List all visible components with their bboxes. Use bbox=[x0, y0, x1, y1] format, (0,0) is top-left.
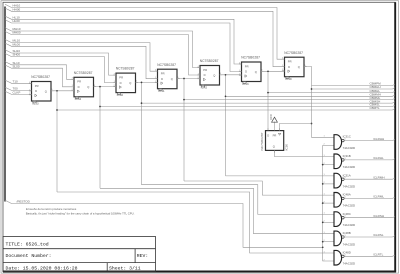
svg-text:/RESTOD: /RESTOD bbox=[17, 199, 31, 203]
svg-text:IC33: IC33 bbox=[32, 101, 39, 105]
wire output /CLRSL to right border bbox=[344, 236, 395, 237]
D flip-flop IC40 (NC7SB0287) bbox=[113, 73, 138, 95]
junction Q7 at CBMHH line bbox=[311, 88, 313, 90]
inner frame thick bottom edge bbox=[3, 271, 396, 273]
junction IC30 output at Q7 vertical bbox=[311, 123, 313, 125]
D flip-flop IC42 (NC7SB0287) bbox=[197, 66, 222, 88]
junction Q5 branch bbox=[225, 74, 227, 76]
svg-text:PR: PR bbox=[203, 68, 207, 72]
svg-text:TITLE: 6526_tod: TITLE: 6526_tod bbox=[6, 241, 49, 247]
junction /RESTOD at IC31A bbox=[322, 183, 324, 185]
svg-text:74AC02D: 74AC02D bbox=[343, 165, 356, 169]
svg-text:Date: 15.05.2020 08:16:28: Date: 15.05.2020 08:16:28 bbox=[6, 265, 78, 271]
wire MH00 from bus to D of IC42 bbox=[5, 31, 200, 75]
D flip-flop IC41 (NC7SB0287) bbox=[155, 69, 180, 91]
title block frame bbox=[3, 237, 156, 272]
svg-text:74AC02D: 74AC02D bbox=[343, 146, 356, 150]
wire Q5 vertical drop bbox=[225, 75, 227, 176]
svg-text:/CLRML: /CLRML bbox=[373, 195, 384, 199]
svg-text:Q: Q bbox=[255, 70, 257, 74]
svg-text:CBMMH: CBMMH bbox=[370, 93, 381, 97]
svg-text:VCC: VCC bbox=[269, 114, 273, 120]
wire HL00 from bus to D of IC43 bbox=[5, 20, 242, 72]
junction Q1 branch bbox=[56, 90, 58, 92]
wire MH10 from bus to PR of IC42 bbox=[5, 28, 200, 68]
NAND gate IC48D (74AC02D) bbox=[324, 250, 347, 265]
wire T10 from bus to PR of IC33 bbox=[5, 80, 32, 83]
svg-text:D: D bbox=[35, 89, 37, 93]
wire Q3 vertical drop bbox=[141, 82, 143, 184]
wire /RESTOD branch to IC31B lower input bbox=[323, 164, 334, 166]
wire output /CLRHL to right border bbox=[344, 159, 395, 160]
svg-text:ML00: ML00 bbox=[13, 42, 21, 46]
D flip-flop IC34 (NC7SB0287) bbox=[71, 77, 96, 99]
svg-text:NC7SB0287: NC7SB0287 bbox=[31, 75, 50, 79]
svg-text:IC30: IC30 bbox=[285, 144, 289, 151]
wire Q of IC43 to CLK of IC49 bbox=[261, 70, 285, 72]
svg-text:SL00: SL00 bbox=[13, 64, 20, 68]
wire /RESTOD branch to IC48B lower input bbox=[323, 241, 334, 243]
wire HH10 from bus to PR of IC49 bbox=[5, 4, 285, 59]
svg-text:Q: Q bbox=[273, 144, 275, 148]
wire ML10 from bus to PR of IC41 bbox=[5, 39, 158, 71]
inner frame thick right edge bbox=[394, 2, 396, 271]
svg-text:CBMPM: CBMPM bbox=[370, 82, 382, 86]
wire Q of IC34 to CLK of IC40 bbox=[94, 86, 117, 88]
svg-text:IC48C: IC48C bbox=[343, 212, 351, 216]
junction Q6 at CBMHL line bbox=[267, 92, 269, 94]
svg-text:D: D bbox=[78, 85, 80, 89]
NAND gate IC48B (74AC02D) bbox=[324, 231, 347, 246]
wire output /CLRSH to right border bbox=[344, 217, 395, 218]
svg-text:IC31C: IC31C bbox=[343, 135, 351, 139]
NAND gate IC48A (74AC02D) bbox=[324, 193, 347, 208]
junction Q3 at CBMSH line bbox=[141, 102, 143, 104]
svg-text:Q: Q bbox=[171, 77, 173, 81]
svg-text:IC42: IC42 bbox=[201, 85, 208, 89]
svg-text:74AC02D: 74AC02D bbox=[343, 185, 356, 189]
svg-text:IC31B: IC31B bbox=[343, 154, 351, 158]
wire HH00 from bus to D of IC49 bbox=[5, 8, 285, 67]
svg-text:IC40: IC40 bbox=[117, 93, 124, 97]
D flip-flop IC43 (NC7SB0287) bbox=[239, 62, 264, 84]
wire Q of IC42 to CLK of IC43 bbox=[220, 74, 242, 76]
svg-text:/CLRMH: /CLRMH bbox=[373, 175, 385, 179]
wire Q4 vertical drop bbox=[183, 79, 185, 182]
wire /RESTOD branch to IC31A lower input bbox=[323, 183, 334, 185]
svg-text:IC34: IC34 bbox=[75, 97, 82, 101]
wire output net CBMPM to right border bbox=[312, 84, 396, 85]
svg-text:/CLRSL: /CLRSL bbox=[373, 233, 384, 237]
wire output /CLRTL to right border bbox=[344, 255, 395, 256]
wire IC30 output to NAND IC31B upper input bbox=[275, 150, 335, 156]
junction Q2 branch bbox=[99, 86, 101, 88]
wire Q3 net to NAND IC48C upper input bbox=[142, 185, 335, 215]
wire T00 from bus to D of IC33 bbox=[5, 87, 32, 90]
wire NAND clear rail vertical bbox=[323, 145, 334, 261]
svg-text:NC7SB0287: NC7SB0287 bbox=[116, 67, 135, 71]
wire output net CBMHH to right border bbox=[312, 88, 396, 89]
svg-text:IC48D: IC48D bbox=[343, 250, 351, 254]
wire /RESTOD branch to IC48C lower input bbox=[323, 221, 334, 223]
svg-text:/CLRHH: /CLRHH bbox=[373, 137, 384, 141]
D flip-flop IC33 (NC7SB0287) bbox=[29, 82, 54, 104]
svg-text:IC48B: IC48B bbox=[343, 231, 351, 235]
wire Q1 net to NAND IC48D upper input bbox=[57, 192, 334, 253]
wire SL10 from bus to PR of IC34 bbox=[5, 62, 74, 80]
wire Q of IC33 to CLK of IC34 bbox=[51, 90, 74, 92]
wire SL00 from bus to D of IC34 bbox=[5, 65, 74, 87]
VCC power symbol for IC30 bbox=[272, 117, 278, 128]
svg-text:IC31A: IC31A bbox=[343, 173, 351, 177]
svg-text:74AC02D: 74AC02D bbox=[343, 204, 356, 208]
svg-text:Sheet: 3/11: Sheet: 3/11 bbox=[109, 265, 141, 271]
svg-text:PR: PR bbox=[35, 84, 39, 88]
svg-text:PR: PR bbox=[77, 80, 81, 84]
junction /RESTOD at IC31B bbox=[322, 164, 324, 166]
svg-text:74AC02D: 74AC02D bbox=[343, 262, 356, 266]
svg-text:CBMSH: CBMSH bbox=[370, 99, 381, 103]
svg-text:PR: PR bbox=[273, 133, 277, 137]
wire HL10 from bus to PR of IC43 bbox=[5, 16, 242, 64]
svg-text:HL00: HL00 bbox=[13, 19, 21, 23]
D flip-flop IC30 (NC7SB0287, rotated) bbox=[266, 128, 284, 153]
svg-text:PR: PR bbox=[161, 72, 165, 76]
svg-text:D: D bbox=[204, 73, 206, 77]
wire Q2 net to NAND IC48D upper input bbox=[100, 188, 334, 233]
junction Q1 at CBMTL line bbox=[56, 109, 58, 111]
wire /RESTOD from bus to NAND clear rail bbox=[5, 200, 323, 247]
svg-text:IC49: IC49 bbox=[285, 77, 292, 81]
svg-text:D: D bbox=[245, 70, 247, 74]
svg-text:D: D bbox=[120, 81, 122, 85]
left input bus bbox=[4, 7, 6, 202]
svg-text:IC43: IC43 bbox=[242, 82, 249, 86]
wire output net CBMSH to right border bbox=[142, 102, 396, 103]
svg-text:Q: Q bbox=[45, 89, 47, 93]
junction /RESTOD at IC48C bbox=[322, 222, 324, 224]
svg-text:CLKP: CLKP bbox=[13, 91, 21, 95]
wire CLKP from bus to CLK of IC33 bbox=[5, 91, 32, 94]
svg-text:CBMHL: CBMHL bbox=[370, 89, 381, 93]
wire Q5 net to NAND IC31A upper input bbox=[226, 175, 335, 177]
svg-text:CBMHH: CBMHH bbox=[370, 85, 381, 89]
NAND gate IC48C (74AC02D) bbox=[324, 212, 347, 227]
junction /RESTOD at IC48B bbox=[322, 241, 324, 243]
svg-text:74AC02D: 74AC02D bbox=[343, 242, 356, 246]
svg-text:NC7SB0287: NC7SB0287 bbox=[157, 63, 176, 67]
svg-text:Basically, it's just "nickel t: Basically, it's just "nickel trading" fo… bbox=[26, 211, 135, 215]
wire output /CLRHH to right border bbox=[344, 139, 395, 140]
NAND gate IC31C (74AC02D) bbox=[324, 135, 347, 150]
wire SH10 from bus to PR of IC40 bbox=[5, 50, 116, 75]
wire output net CBMHL to right border bbox=[268, 91, 395, 92]
wire /RESTOD branch to IC48A lower input bbox=[323, 202, 334, 204]
svg-text:PR: PR bbox=[245, 64, 249, 68]
svg-text:Q: Q bbox=[87, 85, 89, 89]
svg-text:MH00: MH00 bbox=[13, 31, 21, 35]
svg-text:/CLRTL: /CLRTL bbox=[373, 253, 384, 257]
svg-text:D: D bbox=[288, 65, 290, 69]
svg-text:REV:: REV: bbox=[137, 253, 149, 259]
NAND gate IC31A (74AC02D) bbox=[324, 173, 347, 188]
wire Q1 vertical drop bbox=[56, 91, 58, 192]
wire output /CLRML to right border bbox=[344, 197, 395, 198]
wire Q of IC40 to CLK of IC41 bbox=[136, 81, 158, 83]
svg-text:Document Number:: Document Number: bbox=[6, 253, 52, 259]
svg-text:/CLRSH: /CLRSH bbox=[373, 214, 384, 218]
wire output /CLRMH to right border bbox=[344, 178, 395, 179]
wire output net CBMTL to right border bbox=[57, 109, 395, 110]
svg-text:IC48A: IC48A bbox=[343, 193, 351, 197]
junction Q4 at CBMML line bbox=[183, 99, 185, 101]
junction Q5 at CBMMH line bbox=[225, 95, 227, 97]
junction Q3 branch bbox=[141, 82, 143, 84]
junction Q6 branch bbox=[267, 70, 269, 72]
wire Q6 vertical drop to IC30 input pin bbox=[267, 71, 269, 130]
svg-text:/CLRHL: /CLRHL bbox=[373, 156, 384, 160]
svg-text:SH00: SH00 bbox=[13, 53, 21, 57]
svg-text:D: D bbox=[267, 133, 269, 137]
wire clear rail branch to IC31C lower input bbox=[323, 144, 334, 146]
svg-text:Q: Q bbox=[213, 73, 215, 77]
junction /RESTOD at IC48A bbox=[322, 202, 324, 204]
wire ML00 from bus to D of IC41 bbox=[5, 43, 158, 79]
wire Q7 drop to NAND IC31C upper input bbox=[304, 67, 334, 138]
svg-text:NC7SB0287: NC7SB0287 bbox=[284, 51, 303, 55]
svg-text:PR: PR bbox=[288, 60, 292, 64]
svg-text:Q: Q bbox=[298, 65, 300, 69]
wire output net CBMSL to right border bbox=[100, 105, 395, 106]
wire Q of IC41 to CLK of IC42 bbox=[177, 78, 200, 80]
svg-text:NC7SB0287: NC7SB0287 bbox=[241, 56, 260, 60]
svg-text:T10: T10 bbox=[13, 79, 19, 83]
junction Q2 at CBMSL line bbox=[99, 106, 101, 108]
svg-text:NC7SB0287: NC7SB0287 bbox=[200, 59, 219, 63]
NAND gate IC31B (74AC02D) bbox=[324, 154, 347, 169]
svg-text:IC41: IC41 bbox=[158, 89, 165, 93]
svg-text:Q: Q bbox=[129, 81, 131, 85]
wire output net CBMMH to right border bbox=[226, 95, 396, 96]
wire Q2 vertical drop bbox=[99, 87, 101, 189]
svg-text:CBMTL: CBMTL bbox=[370, 106, 380, 110]
wire Q4 net to NAND IC48A upper input bbox=[184, 181, 334, 195]
svg-text:74AC02D: 74AC02D bbox=[343, 223, 356, 227]
wire SH00 from bus to D of IC40 bbox=[5, 53, 116, 82]
svg-text:NC7SB0287: NC7SB0287 bbox=[260, 132, 264, 150]
D flip-flop IC49 (NC7SB0287) bbox=[282, 57, 307, 79]
svg-text:D: D bbox=[161, 77, 163, 81]
wire output net CBMML to right border bbox=[184, 98, 395, 99]
svg-text:NC7SB0287: NC7SB0287 bbox=[74, 71, 93, 75]
junction Q4 branch bbox=[183, 78, 185, 80]
svg-text:HH00: HH00 bbox=[13, 7, 21, 11]
wire IC30 Q output to Q7 vertical junction bbox=[280, 124, 312, 131]
svg-text:PR: PR bbox=[119, 76, 123, 80]
junction /RESTOD at clear rail bbox=[322, 246, 324, 248]
